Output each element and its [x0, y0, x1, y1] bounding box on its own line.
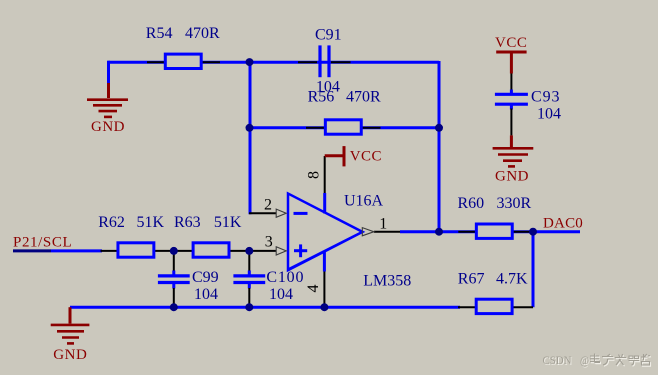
- svg-text:DAC0: DAC0: [543, 216, 583, 232]
- lead R67 left: [458, 306, 476, 308]
- lead C100 bottom blue stub: [248, 283, 251, 289]
- ground symbol GND right: [493, 135, 534, 166]
- svg-text:C99: C99: [192, 269, 219, 286]
- svg-text:@: @: [580, 353, 589, 367]
- svg-text:R54: R54: [146, 25, 173, 42]
- lead C93 bottom black: [510, 109, 512, 136]
- svg-text:4: 4: [305, 285, 322, 293]
- pin 2 arrow: [276, 209, 286, 217]
- pin 4 black segment down to rail: [323, 272, 325, 308]
- wire bottom ground rail: [70, 306, 460, 309]
- svg-text:470R: 470R: [185, 25, 220, 42]
- svg-text:R56: R56: [308, 89, 335, 106]
- capacitor C99 plates: [158, 276, 190, 283]
- wire right vertical: [438, 61, 441, 233]
- lead C93 top blue stub: [510, 90, 513, 95]
- pin 4 blue stub from op-amp: [323, 251, 326, 272]
- junction dot feedback left: [246, 124, 254, 132]
- junction dot output: [435, 228, 443, 236]
- wire feedback horizontal through R56: [250, 126, 440, 129]
- junction dot C99 top: [170, 247, 178, 255]
- svg-text:R62: R62: [98, 214, 125, 231]
- wire top horizontal net: [108, 61, 439, 64]
- resistor R63: [193, 243, 229, 257]
- junction dot C100 bottom: [245, 303, 253, 311]
- svg-text:U16A: U16A: [344, 193, 384, 210]
- lead C91 right: [331, 61, 351, 63]
- wire input net P21/SCL dark segment: [13, 249, 51, 252]
- lead R62 right to R63 left: [155, 250, 194, 252]
- lead R67 right: [513, 306, 534, 308]
- lead R54 right: [202, 61, 220, 63]
- watermark CSDN: [543, 353, 652, 368]
- pin 1 arrow: [362, 228, 374, 236]
- svg-text:51K: 51K: [214, 214, 242, 231]
- lead C100 top: [248, 251, 250, 271]
- lead C100 bottom: [248, 288, 250, 307]
- svg-text:51K: 51K: [137, 214, 165, 231]
- svg-text:1: 1: [379, 215, 387, 232]
- junction dot pin4 bottom: [320, 303, 328, 311]
- svg-text:470R: 470R: [346, 89, 381, 106]
- wire left feedback vertical: [249, 61, 252, 214]
- wire output to R60 and DAC0 stub: [400, 230, 580, 233]
- lead C93 bottom blue stub: [510, 105, 513, 110]
- svg-text:R67: R67: [458, 271, 485, 288]
- svg-text:330R: 330R: [497, 195, 532, 212]
- pin 2 line of op-amp: [249, 212, 276, 214]
- pin 3 arrow: [276, 247, 286, 255]
- capacitor C93 plates: [495, 94, 528, 104]
- lead R60 left: [458, 231, 476, 233]
- op-amp U16A triangle: [287, 192, 366, 273]
- lead C91 left: [298, 61, 317, 63]
- svg-text:GND: GND: [91, 119, 125, 135]
- lead R56 left: [306, 127, 325, 129]
- svg-text:LM358: LM358: [363, 273, 411, 290]
- svg-text:8: 8: [306, 171, 323, 179]
- svg-text:C91: C91: [315, 27, 342, 44]
- svg-text:104: 104: [269, 286, 293, 303]
- junction dot C100 top: [245, 247, 253, 255]
- svg-text:P21/SCL: P21/SCL: [13, 234, 72, 250]
- resistor R62: [118, 243, 154, 257]
- svg-text:VCC: VCC: [495, 35, 527, 51]
- svg-text:GND: GND: [495, 169, 529, 185]
- capacitor C91 plates: [320, 45, 329, 77]
- svg-text:4.7K: 4.7K: [496, 271, 528, 288]
- lead R54 left: [147, 61, 165, 63]
- lead C93 top black: [510, 73, 512, 91]
- resistor R60: [476, 224, 512, 238]
- lead C99 top blue stub: [172, 271, 175, 276]
- lead R62 left: [101, 250, 118, 252]
- svg-text:VCC: VCC: [350, 149, 382, 165]
- power symbol VCC mid (pin 8): [325, 146, 344, 166]
- lead C99 top: [173, 251, 175, 271]
- lead R60 right: [513, 231, 531, 233]
- resistor R54: [165, 54, 201, 68]
- junction dot C99 bottom: [170, 303, 178, 311]
- svg-text:2: 2: [264, 196, 272, 213]
- pin 3 line of op-amp: [250, 250, 276, 252]
- junction dot top feedback: [246, 58, 254, 66]
- svg-text:C100: C100: [266, 269, 304, 286]
- svg-text:C93: C93: [531, 88, 560, 105]
- svg-text:R60: R60: [458, 195, 485, 212]
- lead C99 bottom blue stub: [172, 283, 175, 289]
- svg-text:CSDN: CSDN: [543, 353, 572, 367]
- lead R63 right to pin3 junction: [230, 250, 251, 252]
- power symbol VCC right: [496, 52, 526, 74]
- junction dot feedback right: [435, 124, 443, 132]
- lead C99 bottom: [173, 288, 175, 307]
- wire DAC0 vertical down to R67: [532, 232, 535, 308]
- capacitor C100 plates: [233, 276, 265, 283]
- svg-text:GND: GND: [53, 347, 87, 363]
- op-amp minus sign: [294, 212, 308, 215]
- svg-text:104: 104: [194, 286, 218, 303]
- svg-text:104: 104: [537, 106, 561, 123]
- lead C100 top blue stub: [248, 271, 251, 276]
- wire input net P21/SCL blue segment: [51, 249, 102, 252]
- svg-text:3: 3: [265, 234, 273, 251]
- pin 8 blue stub into op-amp: [323, 193, 326, 214]
- junction dot DAC0: [529, 228, 537, 236]
- pin 8 power pin black segment: [324, 156, 326, 193]
- resistor R67: [476, 299, 512, 313]
- lead R56 right: [362, 127, 381, 129]
- pin 1 output line black: [374, 231, 400, 233]
- ground symbol GND top-left: [87, 83, 128, 117]
- ground symbol GND bottom-left: [51, 307, 90, 343]
- resistor R56: [325, 120, 361, 134]
- wire top-left GND drop: [107, 61, 110, 83]
- svg-text:R63: R63: [174, 214, 201, 231]
- op-amp plus sign: [294, 244, 307, 257]
